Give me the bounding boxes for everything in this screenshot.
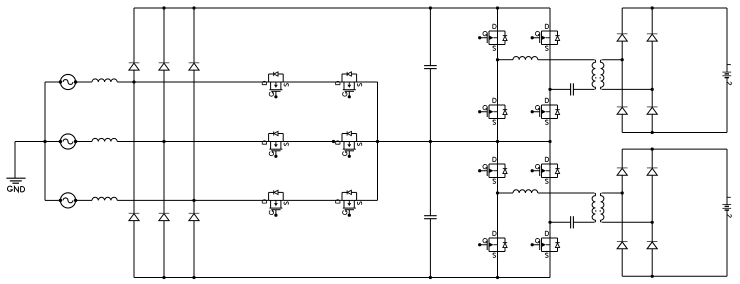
node 1 right leg midpoint [548, 88, 551, 91]
transformer T1 [592, 60, 604, 90]
wire Q4 to clamp bus [357, 141, 378, 143]
wire DC midpoint rail [378, 141, 551, 143]
wire 1 cap to transformer [573, 88, 594, 90]
wire 1 output bottom rail [622, 132, 727, 134]
capacitor C2 (lower DC bus) [424, 142, 437, 278]
node 2 secondary bottom junction [651, 221, 654, 224]
wire rectifier leg 2 middle [163, 70, 165, 213]
node phase A junction [132, 80, 135, 83]
transistor Q8 (MOSFET 1 left-bottom) [478, 98, 507, 124]
node 2 right leg midpoint [548, 221, 551, 224]
wire 2 output leg left middle [621, 175, 623, 241]
wire rectifier leg 1 upper [133, 8, 135, 63]
wire 2 inductor to transformer [538, 192, 594, 194]
wire 1 secondary bottom [602, 88, 652, 90]
wire rectifier leg 2 upper [163, 8, 165, 63]
diode D23 output top right [647, 168, 658, 175]
node 1 output bottom rail junction [651, 131, 654, 134]
wire 2 right leg source [549, 252, 551, 278]
wire source to inductor LB [76, 141, 92, 143]
battery B2 [722, 197, 731, 217]
transistor Q9 (MOSFET 1 right-top) [531, 24, 560, 50]
wire Q6 to clamp bus [357, 199, 378, 201]
wire DC- bottom rail [134, 277, 550, 279]
diode D22 output bottom left [617, 242, 628, 249]
wire 1 inductor to transformer [538, 59, 594, 61]
wire 1 output top rail [622, 7, 727, 9]
wire 2 battery positive lead [726, 149, 728, 205]
transistor Q10 (MOSFET 1 right-bottom) [531, 98, 560, 124]
wire 2 output bottom rail [622, 275, 727, 277]
wire 2 output top rail [622, 148, 727, 150]
inductor LC [92, 197, 117, 200]
wire 2 left leg middle [497, 178, 499, 239]
wire 2 secondary top [602, 192, 622, 194]
capacitor C1 (upper DC bus) [424, 8, 437, 142]
node 2 left leg midpoint [496, 191, 499, 194]
node neutral junction [43, 140, 46, 143]
wire 1 left leg source [497, 119, 499, 142]
node 1 secondary top junction [621, 58, 624, 61]
wire 1 output leg right upper [651, 8, 653, 34]
wire between Q1 and Q2 [283, 81, 342, 83]
wire rectifier leg 2 lower [163, 221, 165, 278]
transistor Q13 (MOSFET 2 right-top) [531, 157, 560, 183]
wire bus to source VC [45, 199, 60, 201]
wire 1 right mid to cap [550, 88, 571, 90]
wire 2 output leg right middle [651, 175, 653, 241]
wire rectifier leg 1 lower [133, 221, 135, 278]
node top rail junctions [162, 6, 165, 9]
wire 2 output leg left upper [621, 149, 623, 168]
wire phase A to bridge [117, 81, 268, 83]
node phase C junction [192, 199, 195, 202]
diode D6 (bottom) [189, 213, 200, 220]
inductor LA [92, 79, 117, 82]
wire phase B to bridge [117, 141, 268, 143]
transistor Q12 (MOSFET 2 left-bottom) [478, 231, 507, 257]
wire Q2 to clamp bus [357, 81, 378, 83]
transistor Q5 (MOSFET, phase C left) [262, 190, 288, 216]
transistor Q11 (MOSFET 2 left-top) [478, 157, 507, 183]
wire phase C to bridge [117, 199, 268, 201]
wire 1 secondary top [602, 59, 622, 61]
node midpoint junctions [376, 140, 379, 143]
node phase B switch mid [332, 140, 335, 143]
node 1 left leg midpoint [496, 58, 499, 61]
wire 1 right leg drain [549, 8, 551, 31]
diode D4 (bottom) [129, 213, 140, 220]
wire clamp bus vertical [377, 82, 379, 200]
wire 1 output leg right lower [651, 114, 653, 132]
inductor LB [92, 138, 117, 141]
wire source neutral bus [44, 82, 46, 200]
diode D14 output bottom right [647, 107, 658, 114]
wire 2 cap to transformer [573, 221, 594, 223]
diode D13 output top right [647, 34, 658, 41]
inductor L2 resonant [513, 190, 538, 193]
wire 2 right mid to cap [550, 221, 571, 223]
wire 2 secondary bottom [602, 221, 652, 223]
node 2 secondary top junction [621, 191, 624, 194]
wire 1 output leg left middle [621, 41, 623, 107]
wire between Q3 and Q4 [283, 141, 342, 143]
wire 1 output leg left lower [621, 114, 623, 132]
diode D5 (bottom) [159, 213, 170, 220]
node phase B junction [162, 140, 165, 143]
wire 1 bridge mid to inductor [498, 59, 514, 61]
wire 1 output leg left upper [621, 8, 623, 34]
transistor Q1 (MOSFET, phase A left) [262, 72, 288, 99]
ac source VC [59, 193, 78, 208]
ac source VA [59, 74, 78, 89]
capacitor C1 blocking [570, 83, 572, 95]
wire 1 battery positive lead [726, 8, 728, 72]
wire bus to source VA [45, 81, 60, 83]
wire 2 output leg right upper [651, 149, 653, 168]
wire rectifier leg 3 upper [193, 8, 195, 63]
wire 1 left leg drain [497, 8, 499, 31]
wire bus to source VB [45, 141, 60, 143]
transistor Q7 (MOSFET 1 left-top) [478, 24, 507, 50]
wire 2 output leg right lower [651, 249, 653, 276]
node 2 output bottom rail junction [651, 275, 654, 278]
wire 2 battery negative lead [726, 210, 728, 276]
inductor L1 resonant [513, 56, 538, 59]
transistor Q14 (MOSFET 2 right-bottom) [531, 231, 560, 257]
wire DC+ top rail [134, 7, 550, 9]
wire 2 right leg middle [549, 178, 551, 239]
transistor Q4 (MOSFET, phase B right) [336, 131, 362, 158]
diode D2 (top) [159, 63, 170, 70]
diode D11 output top left [617, 34, 628, 41]
diode D24 output bottom right [647, 242, 658, 249]
wire 1 output leg right middle [651, 41, 653, 107]
battery B1 [722, 65, 731, 85]
wire source to inductor LC [76, 199, 92, 201]
diode D1 (top) [129, 63, 140, 70]
transistor Q3 (MOSFET, phase B left) [262, 131, 288, 158]
wire rectifier leg 1 middle [133, 70, 135, 213]
wire source to inductor LA [76, 81, 92, 83]
transistor Q2 (MOSFET, phase A right) [336, 72, 362, 99]
ground GND [6, 142, 25, 192]
ac source VB [59, 134, 78, 149]
wire 2 left leg drain [497, 142, 499, 165]
wire rectifier leg 3 middle [193, 70, 195, 213]
transformer T2 [592, 193, 604, 222]
node bottom rail junctions [162, 276, 165, 279]
wire 2 bridge mid to inductor [498, 192, 514, 194]
wire 1 left leg middle [497, 45, 499, 106]
wire 1 right leg middle [549, 45, 551, 106]
diode D12 output bottom left [617, 107, 628, 114]
wire 1 right leg source [549, 119, 551, 142]
transistor Q6 (MOSFET, phase C right) [336, 190, 362, 216]
wire ground to source bus [15, 141, 45, 143]
wire 2 left leg source [497, 252, 499, 278]
wire 2 output leg left lower [621, 249, 623, 276]
capacitor C2 blocking [570, 216, 572, 228]
wire rectifier leg 3 lower [193, 221, 195, 278]
node 1 secondary bottom junction [651, 88, 654, 91]
diode D3 (top) [189, 63, 200, 70]
node 1 output top rail junction [651, 6, 654, 9]
wire 1 battery negative lead [726, 78, 728, 133]
wire 2 right leg drain [549, 142, 551, 165]
node 2 output top rail junction [651, 148, 654, 151]
diode D21 output top left [617, 168, 628, 175]
wire between Q5 and Q6 [283, 199, 342, 201]
